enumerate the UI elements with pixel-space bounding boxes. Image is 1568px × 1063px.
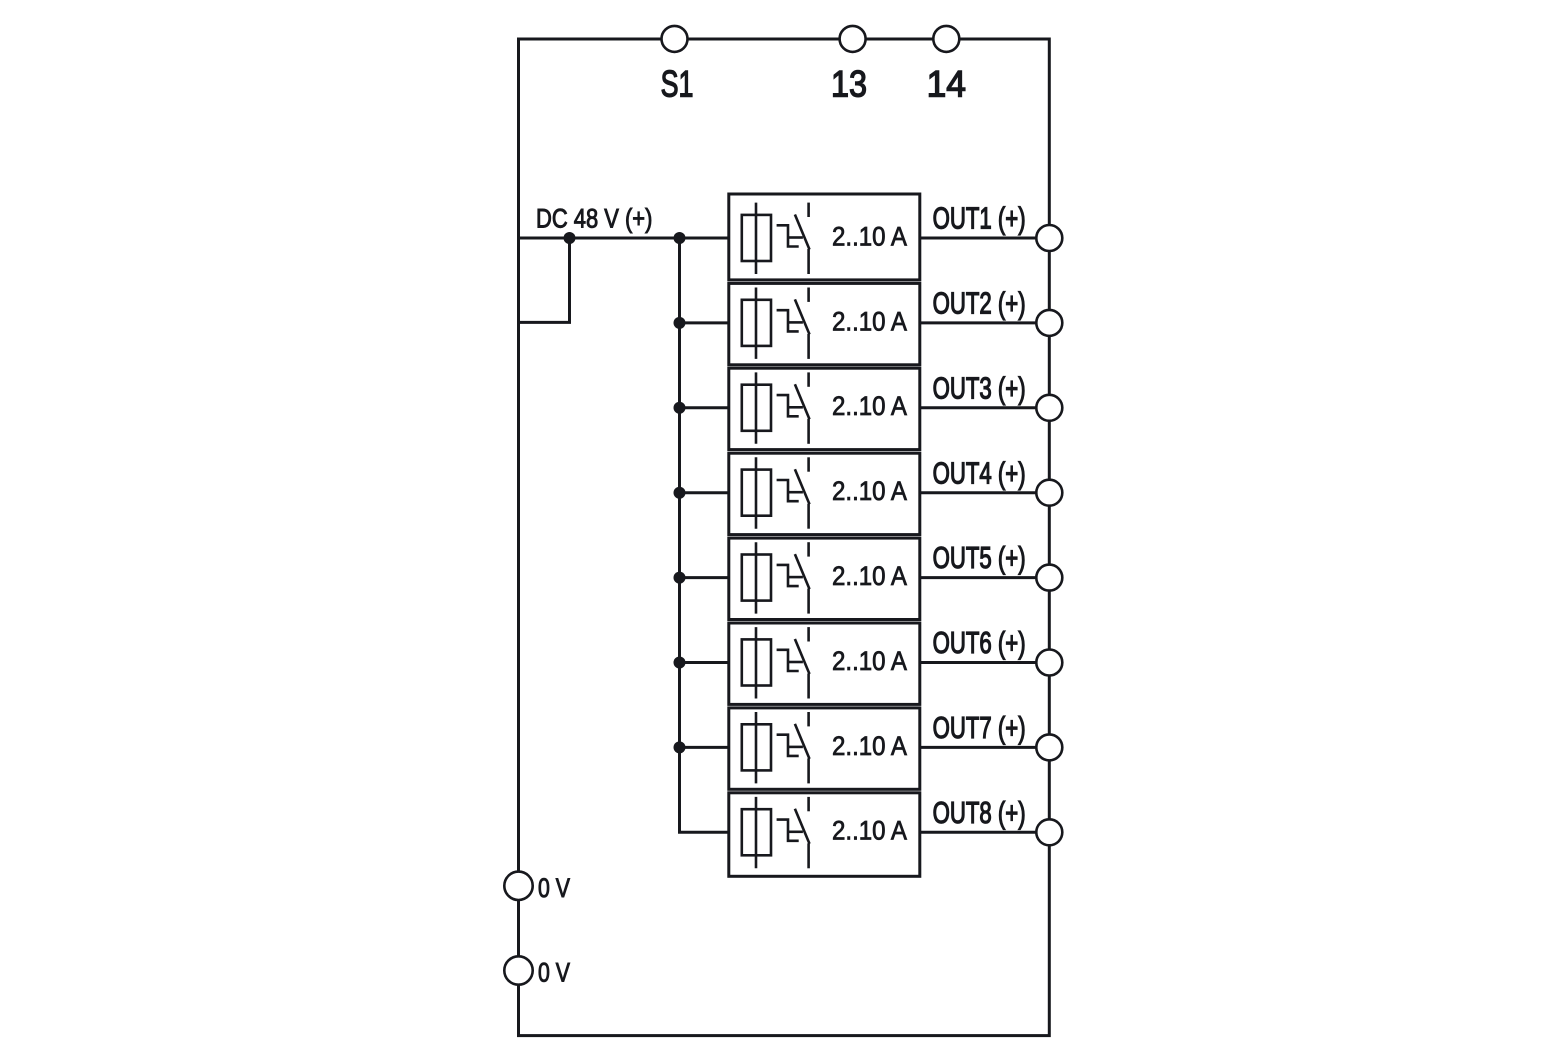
svg-text:2..10 A: 2..10 A bbox=[832, 221, 907, 251]
svg-text:OUT8 (+): OUT8 (+) bbox=[933, 797, 1026, 830]
svg-text:2..10 A: 2..10 A bbox=[832, 731, 907, 761]
svg-text:DC 48 V (+): DC 48 V (+) bbox=[536, 202, 652, 233]
svg-text:2..10 A: 2..10 A bbox=[832, 646, 907, 676]
svg-text:0 V: 0 V bbox=[538, 957, 571, 988]
svg-text:2..10 A: 2..10 A bbox=[832, 561, 907, 591]
svg-text:2..10 A: 2..10 A bbox=[832, 306, 907, 336]
svg-text:2..10 A: 2..10 A bbox=[832, 476, 907, 506]
svg-text:2..10 A: 2..10 A bbox=[832, 391, 907, 421]
svg-text:OUT2 (+): OUT2 (+) bbox=[933, 288, 1026, 321]
svg-text:OUT1 (+): OUT1 (+) bbox=[933, 203, 1026, 236]
svg-text:OUT6 (+): OUT6 (+) bbox=[933, 627, 1026, 660]
svg-text:S1: S1 bbox=[661, 63, 694, 105]
svg-text:OUT7 (+): OUT7 (+) bbox=[933, 712, 1026, 745]
svg-text:14: 14 bbox=[927, 63, 966, 105]
svg-text:13: 13 bbox=[831, 63, 867, 105]
svg-text:OUT3 (+): OUT3 (+) bbox=[933, 372, 1026, 405]
svg-text:OUT5 (+): OUT5 (+) bbox=[933, 542, 1026, 575]
svg-text:OUT4 (+): OUT4 (+) bbox=[933, 457, 1026, 490]
svg-text:0 V: 0 V bbox=[538, 872, 571, 903]
svg-text:2..10 A: 2..10 A bbox=[832, 816, 907, 846]
